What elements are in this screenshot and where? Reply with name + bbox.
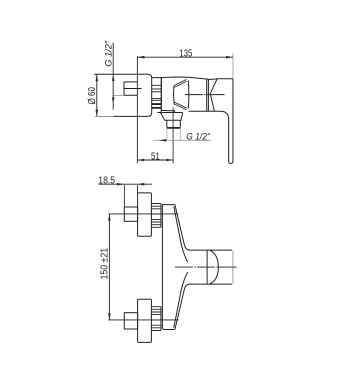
svg-text:150 ±21: 150 ±21: [100, 248, 111, 280]
svg-text:135: 135: [179, 47, 192, 59]
svg-text:18.5: 18.5: [98, 175, 115, 186]
svg-text:G 1/2": G 1/2": [103, 40, 114, 67]
svg-text:G 1/2": G 1/2": [186, 131, 210, 142]
svg-text:Ø 60: Ø 60: [87, 87, 98, 105]
svg-text:51: 51: [151, 151, 160, 163]
